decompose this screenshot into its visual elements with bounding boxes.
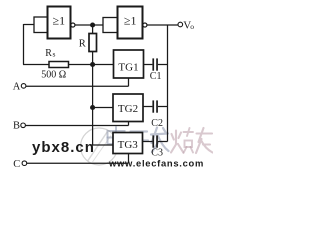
wire: C stub to TG3 bottom	[128, 154, 130, 164]
wire: C input line	[27, 162, 129, 164]
svg-text:B: B	[13, 120, 20, 131]
wire: B stub to TG2 bottom	[128, 122, 130, 126]
or-gate U1	[48, 7, 71, 39]
wire: TG3 output to C3	[143, 141, 153, 143]
wire: gate1 output to dot1	[75, 24, 91, 26]
svg-text:TG3: TG3	[118, 139, 139, 151]
wire: dot2 to TG1 input	[94, 64, 114, 66]
char dian	[108, 131, 125, 144]
svg-text:TG2: TG2	[118, 103, 138, 115]
svg-text:C1: C1	[150, 71, 162, 82]
char shao	[171, 131, 183, 153]
char zi	[130, 132, 149, 151]
transmission gate TG2	[113, 94, 143, 122]
capacitor C3	[152, 135, 154, 147]
node dot1	[90, 22, 95, 27]
or-gate U2	[118, 7, 143, 39]
wire: Rs to node dot2	[69, 64, 92, 66]
resistor R	[89, 34, 97, 52]
wire: left vertical feedback	[23, 24, 25, 65]
svg-text:ybx8.cn: ybx8.cn	[32, 139, 95, 156]
svg-text:TG1: TG1	[118, 62, 138, 74]
wire: A input line	[26, 85, 129, 87]
wire: input feed to gate1 small box	[24, 24, 35, 26]
capacitor C1	[152, 58, 154, 70]
gate U2 input box	[103, 18, 118, 33]
wire: C2 to rail	[158, 106, 168, 108]
char you	[196, 128, 213, 153]
wire: B input line	[25, 125, 128, 127]
wire: TG2 output to C2	[143, 106, 152, 108]
svg-text:A: A	[13, 82, 21, 93]
wire: C3 to rail	[158, 141, 168, 143]
wire: Rs row left	[23, 64, 49, 66]
char fa	[151, 128, 169, 153]
resistor Rs	[49, 62, 69, 68]
watermark stamp circle	[81, 128, 118, 165]
wire: vertical rail right	[167, 25, 169, 142]
wire: TG1 output to C1	[144, 64, 153, 66]
svg-text:≥1: ≥1	[53, 14, 66, 28]
wire: dot3 to TG2 input	[94, 107, 113, 109]
capacitor C2	[152, 100, 154, 112]
wire: C1 to rail	[158, 64, 168, 66]
bubble U1 output	[71, 23, 75, 27]
svg-text:C3: C3	[151, 147, 163, 158]
transmission gate TG1	[114, 50, 144, 78]
node dot3	[90, 105, 95, 110]
svg-text:≥1: ≥1	[124, 14, 137, 28]
wire: dot1 to gate2 small box	[94, 24, 103, 26]
wire: dot1 down to R	[92, 26, 94, 34]
terminal Vo	[178, 22, 183, 27]
wire: gate2 output to Vo	[147, 24, 178, 26]
bubble U2 output	[143, 23, 147, 27]
svg-text:R: R	[45, 48, 52, 59]
gate U1 input box	[34, 17, 48, 33]
svg-text:R: R	[79, 38, 86, 49]
transmission gate TG3	[113, 133, 143, 154]
svg-text:500 Ω: 500 Ω	[41, 70, 66, 81]
wire: dot2 down to dot3	[92, 66, 94, 107]
svg-text:s: s	[53, 49, 56, 58]
wire: dot3 down and to TG3 input	[93, 109, 113, 145]
wire: A stub to TG1 bottom	[128, 78, 130, 86]
svg-text:C: C	[13, 159, 20, 170]
wire: R to dot2	[92, 52, 94, 64]
svg-text:C2: C2	[151, 118, 163, 129]
watermark CJK characters	[108, 127, 169, 152]
svg-text:o: o	[190, 22, 194, 31]
node dot2	[90, 62, 95, 67]
